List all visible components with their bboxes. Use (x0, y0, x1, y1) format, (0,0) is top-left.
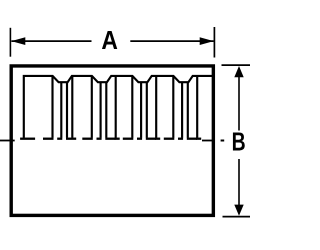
ferrule outer shell box (11, 66, 213, 215)
dimension A line left segment (11, 40, 91, 42)
crown E internal vertical (196, 76, 198, 138)
notch 1 mid vertical (60, 82, 62, 138)
notch 1 right vertical (66, 82, 68, 138)
dimension B top extension line (222, 64, 251, 66)
crown D internal vertical (155, 76, 157, 138)
dimension A line right segment (130, 40, 213, 42)
dimension A right arrowhead (200, 37, 214, 45)
notch 3 serif feet (123, 138, 134, 140)
dimension B line lower segment (238, 159, 240, 205)
notch 4 tooth-edge vertical (crown end) (172, 76, 174, 138)
notch 2 mid vertical (100, 82, 102, 138)
left wall serif foot (20, 138, 35, 140)
crown B internal vertical (71, 76, 73, 138)
notch 4 mid vertical (181, 82, 183, 138)
dimension B down arrowhead (234, 205, 243, 216)
notch 2 right vertical (105, 82, 107, 138)
centerline dash right short (221, 140, 225, 142)
dimension A left extension line (9, 28, 11, 57)
crown C internal vertical (115, 76, 117, 138)
dimension B line upper segment (238, 77, 240, 131)
centerline dash left (0, 140, 15, 142)
notch 3 right vertical (146, 82, 148, 138)
dimension B up arrowhead (234, 66, 243, 77)
dimension B bottom extension line (223, 216, 251, 218)
dimension A right extension line (213, 27, 215, 58)
notch 4 serif feet (164, 138, 175, 140)
notch 4 right vertical (187, 82, 189, 138)
dimension A left arrowhead (11, 37, 25, 45)
svg-text:B: B (232, 126, 246, 156)
svg-text:A: A (101, 25, 118, 55)
centerline dash right long (202, 140, 215, 142)
notch 2 serif feet (82, 138, 93, 140)
notch 3 mid vertical (140, 82, 142, 138)
notch 2 tooth-edge vertical (crown end) (91, 76, 93, 138)
notch 3 tooth-edge vertical (crown end) (131, 76, 133, 138)
notch 1 serif feet (43, 138, 54, 140)
notch 1 tooth-edge vertical (crown end) (51, 76, 53, 138)
inner serration top contour (left wall, crowns, notch slopes and notch bottoms) (24, 76, 214, 138)
